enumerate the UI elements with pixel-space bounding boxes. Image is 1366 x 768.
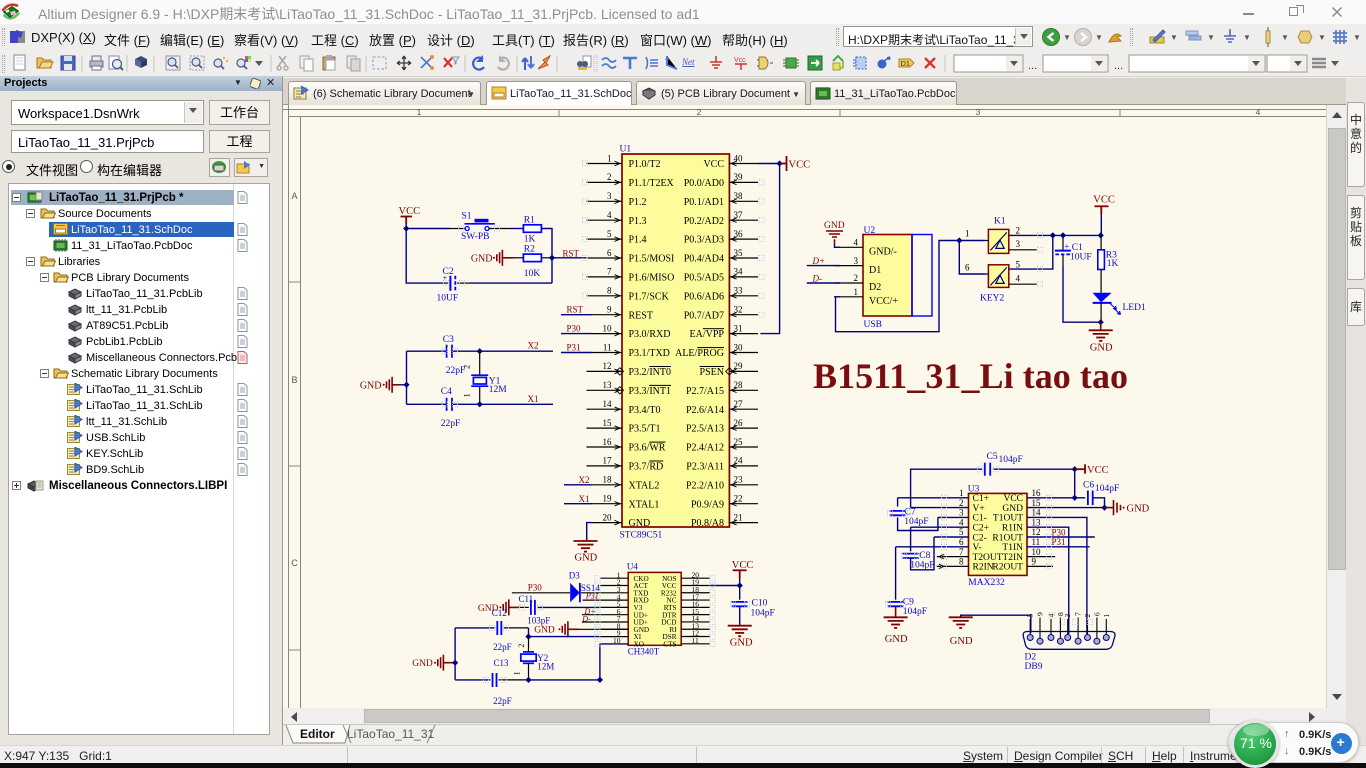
svg-text:28: 28 bbox=[734, 380, 744, 390]
svg-text:SW-PB: SW-PB bbox=[461, 232, 490, 242]
svg-text:24: 24 bbox=[734, 456, 744, 466]
wire K1 pin1 to KEY2 pin6 bbox=[959, 241, 985, 275]
pin 27 (U1 P2.6/A14) bbox=[729, 408, 758, 410]
svg-text:38: 38 bbox=[734, 191, 744, 201]
svg-text:26: 26 bbox=[734, 418, 744, 428]
svg-text:10UF: 10UF bbox=[1070, 252, 1092, 262]
svg-text:9: 9 bbox=[1032, 557, 1037, 567]
svg-text:18: 18 bbox=[603, 475, 613, 485]
svg-text:104pF: 104pF bbox=[903, 607, 927, 617]
resistor R3 bbox=[1100, 235, 1102, 249]
pin 38 (U1 P0.1/AD1) bbox=[729, 200, 758, 202]
pin 10 stub (U3 T2IN) bbox=[1027, 556, 1055, 558]
svg-text:1K: 1K bbox=[524, 235, 536, 245]
svg-text:GND: GND bbox=[360, 381, 382, 392]
key KEY2 bbox=[988, 265, 1008, 288]
junction (LED gnd node) bbox=[1098, 319, 1104, 325]
wire U3 pin14 T1OUT to DB9 pin2 bbox=[1027, 517, 1087, 634]
svg-text:P3.5/T1: P3.5/T1 bbox=[629, 424, 661, 435]
svg-text:2: 2 bbox=[1083, 614, 1092, 618]
wire D+ to U2 pin3 bbox=[807, 265, 840, 267]
wire X1 (crystal) bbox=[407, 403, 447, 405]
pin 28 (U1 P2.7/A15) bbox=[729, 389, 758, 391]
svg-text:GND: GND bbox=[629, 518, 651, 529]
svg-text:P1.4: P1.4 bbox=[629, 235, 647, 246]
pin 19 (U1 XTAL1) bbox=[592, 503, 622, 505]
wire VCC to S1 bbox=[406, 224, 450, 229]
svg-text:C1: C1 bbox=[1072, 243, 1083, 253]
svg-text:P0.9/A9: P0.9/A9 bbox=[691, 499, 724, 510]
svg-text:104pF: 104pF bbox=[1095, 484, 1119, 494]
svg-text:P0.3/AD3: P0.3/AD3 bbox=[684, 235, 724, 246]
pin 37 (U1 P0.2/AD2) bbox=[729, 219, 758, 221]
power GND (C6) bbox=[1105, 507, 1114, 509]
svg-text:10UF: 10UF bbox=[437, 293, 459, 303]
junction (Y2 top / XI) bbox=[525, 633, 531, 639]
wire U3 pin4 C2+ bbox=[911, 526, 969, 528]
svg-text:30: 30 bbox=[734, 342, 744, 352]
svg-text:15: 15 bbox=[603, 418, 613, 428]
svg-text:P1.3: P1.3 bbox=[629, 216, 647, 227]
pin 2 (U1 P1.1/T2EX) bbox=[587, 181, 623, 183]
svg-text:C5: C5 bbox=[987, 452, 998, 462]
svg-text:5: 5 bbox=[1026, 614, 1035, 618]
pin 6 (D2) bbox=[1096, 618, 1098, 639]
pin 1 (U2) bbox=[834, 296, 863, 298]
diode D3 SS14 bbox=[570, 583, 580, 602]
svg-text:2: 2 bbox=[517, 644, 526, 648]
svg-text:U3: U3 bbox=[968, 484, 980, 494]
svg-text:K1: K1 bbox=[994, 216, 1006, 226]
svg-text:2: 2 bbox=[1016, 226, 1021, 236]
pin 22 (U1 P0.9/A9) bbox=[729, 503, 758, 505]
svg-text:15: 15 bbox=[1032, 498, 1042, 508]
svg-text:22: 22 bbox=[734, 494, 743, 504]
svg-text:A: A bbox=[291, 191, 297, 201]
wire C2 bottom rail bbox=[406, 229, 441, 284]
wire U2 pin4 to GND bbox=[835, 244, 841, 248]
svg-text:C2-: C2- bbox=[973, 533, 987, 543]
svg-text:17: 17 bbox=[603, 456, 613, 466]
svg-text:7: 7 bbox=[607, 267, 612, 277]
pin 7 (U1 P1.6/MISO) bbox=[587, 276, 623, 278]
nav icons bbox=[1041, 27, 1061, 47]
svg-text:104pF: 104pF bbox=[904, 517, 928, 527]
svg-text:C7: C7 bbox=[905, 507, 916, 517]
svg-text:20: 20 bbox=[603, 512, 613, 522]
svg-text:PSEN: PSEN bbox=[700, 367, 724, 378]
svg-text:39: 39 bbox=[734, 172, 744, 182]
svg-text:1: 1 bbox=[513, 671, 522, 675]
svg-text:...: ... bbox=[1114, 60, 1123, 72]
pin 21 (U1 P0.8/A8) bbox=[729, 522, 758, 524]
pin 8 (D2) bbox=[1059, 618, 1061, 639]
ground GND (U1) bbox=[574, 541, 598, 552]
svg-text:104pF: 104pF bbox=[910, 560, 934, 570]
wire R3 to LED1 bbox=[1100, 270, 1102, 293]
tree bbox=[8, 183, 270, 735]
svg-text:VCC/+: VCC/+ bbox=[869, 296, 898, 307]
capacitor C6 104pF bbox=[1075, 497, 1086, 499]
power GND (C9) bbox=[884, 617, 908, 628]
capacitor C2 bbox=[449, 276, 451, 291]
svg-text:P0.7/AD7: P0.7/AD7 bbox=[684, 310, 724, 321]
svg-text:P2.5/A13: P2.5/A13 bbox=[686, 424, 724, 435]
wire U3 pin11 T1IN / P31 bbox=[1027, 546, 1090, 548]
svg-text:C13: C13 bbox=[494, 658, 510, 668]
svg-text:VCC: VCC bbox=[1087, 465, 1109, 476]
svg-text:3: 3 bbox=[607, 191, 612, 201]
junction (C1 node) bbox=[1060, 232, 1066, 238]
svg-text:KEY2: KEY2 bbox=[980, 293, 1005, 303]
svg-text:104pF: 104pF bbox=[751, 608, 775, 618]
svg-text:P2.4/A12: P2.4/A12 bbox=[686, 443, 724, 454]
svg-text:D+: D+ bbox=[812, 256, 826, 266]
svg-text:1: 1 bbox=[959, 488, 964, 498]
svg-text:DB9: DB9 bbox=[1025, 662, 1043, 672]
svg-text:4: 4 bbox=[607, 210, 612, 220]
pin 29 (U1 PSEN) bbox=[729, 370, 758, 372]
junction (Y2 gnd) bbox=[452, 660, 458, 666]
svg-text:RST: RST bbox=[563, 248, 580, 258]
svg-text:P3.2/INT0: P3.2/INT0 bbox=[629, 367, 672, 378]
wire U4 pin19 VCC bbox=[710, 585, 740, 587]
wire Y2 bottom to XO bbox=[529, 679, 600, 681]
junction (U1 VCC) bbox=[776, 160, 782, 166]
wire U3 pin12 R1OUT / P30 bbox=[1027, 536, 1095, 538]
svg-text:C1+: C1+ bbox=[973, 494, 989, 504]
svg-text:35: 35 bbox=[734, 248, 744, 258]
capacitor C4 bbox=[447, 398, 452, 411]
svg-text:2: 2 bbox=[854, 273, 859, 283]
svg-text:14: 14 bbox=[603, 399, 613, 409]
power GND (C10) bbox=[728, 626, 752, 637]
svg-text:P1.6/MISO: P1.6/MISO bbox=[629, 273, 675, 284]
svg-text:XTAL1: XTAL1 bbox=[629, 499, 660, 510]
wire P30 to diode D3 bbox=[512, 592, 570, 594]
svg-text:CTS: CTS bbox=[663, 640, 676, 648]
svg-text:MAX232: MAX232 bbox=[968, 578, 1005, 588]
svg-text:VCC: VCC bbox=[1093, 194, 1115, 205]
wire D- to U2 pin2 bbox=[807, 282, 840, 284]
junction (X2 node) bbox=[477, 348, 483, 354]
svg-text:6: 6 bbox=[959, 537, 964, 547]
LED LED1 bbox=[1093, 293, 1112, 303]
svg-text:GND: GND bbox=[471, 253, 493, 264]
junction (crystal gnd) bbox=[403, 382, 409, 388]
svg-text:12: 12 bbox=[1032, 527, 1041, 537]
svg-text:C6: C6 bbox=[1083, 480, 1094, 490]
svg-text:5: 5 bbox=[1016, 260, 1021, 270]
svg-text:R2OUT: R2OUT bbox=[992, 563, 1023, 573]
svg-text:C3: C3 bbox=[443, 335, 454, 345]
wire GND to crystal rail bbox=[399, 384, 407, 386]
pin 2 (U2) bbox=[834, 282, 863, 284]
wire P30 to U1 pin10 bbox=[561, 333, 592, 335]
svg-text:22pF: 22pF bbox=[441, 419, 461, 429]
svg-text:XO: XO bbox=[634, 640, 644, 648]
svg-text:C12: C12 bbox=[492, 608, 507, 618]
junction (XO corner) bbox=[597, 677, 603, 683]
pin 2 (D2) bbox=[1087, 619, 1089, 635]
junction (K1 pin1 node) bbox=[956, 237, 962, 243]
pin 17 (U1 P3.7/RD) bbox=[587, 465, 623, 467]
pin 3 (U2) bbox=[834, 265, 863, 267]
svg-text:R1OUT: R1OUT bbox=[992, 533, 1023, 543]
svg-text:37: 37 bbox=[734, 210, 744, 220]
wire GND to DB9 pin5 bbox=[961, 615, 1031, 633]
wire U3 pin6 V- bbox=[896, 546, 969, 548]
pin 18 (U1 XTAL2) bbox=[592, 484, 622, 486]
capacitor C13 22pF bbox=[455, 679, 490, 681]
svg-text:P1.0/T2: P1.0/T2 bbox=[629, 159, 661, 170]
svg-text:VCC: VCC bbox=[1003, 494, 1023, 504]
svg-text:10: 10 bbox=[603, 323, 613, 333]
wire KEY2 pin5 up to C1 node bbox=[1009, 235, 1053, 269]
wire XI to U4 pin9 bbox=[529, 636, 600, 638]
svg-text:XTAL2: XTAL2 bbox=[629, 480, 660, 491]
capacitor C1 10UF bbox=[1062, 235, 1064, 238]
pin 11 (U1 P3.1/TXD) bbox=[592, 352, 622, 354]
svg-text:6: 6 bbox=[607, 248, 612, 258]
wire VCC to U3 pin16 bbox=[1074, 469, 1076, 498]
svg-text:P31: P31 bbox=[585, 592, 599, 601]
svg-text:12M: 12M bbox=[489, 385, 508, 395]
wire X1 to U1 pin19 bbox=[564, 503, 592, 505]
svg-text:4: 4 bbox=[1256, 107, 1261, 117]
svg-text:P1.5/MOSI: P1.5/MOSI bbox=[629, 254, 675, 265]
svg-text:VCC: VCC bbox=[732, 560, 754, 571]
pin 9 (U1 REST) bbox=[592, 314, 622, 316]
svg-text:C8: C8 bbox=[919, 551, 930, 561]
junction (C1 top branch) bbox=[1050, 232, 1056, 238]
svg-text:EA/VPP: EA/VPP bbox=[690, 329, 725, 340]
svg-text:T1IN: T1IN bbox=[1002, 543, 1023, 553]
svg-text:P0.1/AD1: P0.1/AD1 bbox=[684, 197, 724, 208]
svg-text:U2: U2 bbox=[864, 226, 876, 236]
pin 4 (U1 P1.3) bbox=[587, 219, 623, 221]
svg-text:GND: GND bbox=[412, 659, 433, 669]
pin 15 (U1 P3.5/T1) bbox=[587, 427, 623, 429]
IC U4 CH340T bbox=[628, 572, 681, 645]
svg-text:P3.7/RD: P3.7/RD bbox=[629, 462, 664, 473]
svg-text:V-: V- bbox=[973, 543, 982, 553]
svg-text:11: 11 bbox=[1032, 537, 1041, 547]
svg-text:P1.7/SCK: P1.7/SCK bbox=[629, 291, 670, 302]
svg-text:12M: 12M bbox=[537, 662, 554, 672]
wire D+ to U4 pin6 bbox=[582, 614, 628, 616]
pin 8 (U1 P1.7/SCK) bbox=[587, 295, 623, 297]
svg-text:U1: U1 bbox=[620, 145, 632, 155]
svg-text:23: 23 bbox=[734, 475, 744, 485]
ground GND (LED) bbox=[1100, 322, 1102, 330]
wire R1 to RST node bbox=[541, 229, 552, 284]
svg-text:C2+: C2+ bbox=[973, 524, 989, 534]
svg-text:19: 19 bbox=[603, 494, 613, 504]
svg-text:32: 32 bbox=[734, 305, 743, 315]
wire GND to crystal rail bbox=[452, 662, 455, 664]
svg-text:P1.1/T2EX: P1.1/T2EX bbox=[629, 178, 675, 189]
svg-text:16: 16 bbox=[603, 437, 613, 447]
svg-text:104pF: 104pF bbox=[999, 455, 1023, 465]
pin 31 (U1 EA/VPP) bbox=[729, 333, 758, 335]
svg-text:22pF: 22pF bbox=[493, 642, 512, 652]
wire U3 pin2 V+ bbox=[911, 507, 969, 509]
svg-text:RST: RST bbox=[567, 305, 584, 315]
wire RST to U1 pin9 bbox=[561, 314, 592, 316]
wire U3 pin13 R1IN to DB9 pin3 bbox=[1027, 527, 1069, 634]
wire U1 pin40 to VCC bbox=[758, 163, 780, 165]
svg-text:13: 13 bbox=[1032, 517, 1042, 527]
svg-text:22pF: 22pF bbox=[493, 696, 512, 706]
svg-text:S1: S1 bbox=[462, 211, 472, 221]
wire U3 pin16 VCC bbox=[1027, 497, 1075, 499]
svg-text:P2.7/A15: P2.7/A15 bbox=[686, 386, 724, 397]
svg-text:6: 6 bbox=[965, 263, 970, 273]
svg-text:5: 5 bbox=[959, 527, 964, 537]
svg-text:3: 3 bbox=[854, 256, 859, 266]
svg-text:R1: R1 bbox=[524, 215, 535, 225]
svg-text:D3: D3 bbox=[569, 570, 580, 580]
svg-text:12: 12 bbox=[603, 361, 612, 371]
wire Y2 left rail bbox=[454, 628, 456, 680]
svg-text:P30: P30 bbox=[567, 324, 582, 334]
svg-text:P1.2: P1.2 bbox=[629, 197, 647, 208]
capacitor C11 103pF bbox=[519, 606, 529, 608]
svg-text:X1: X1 bbox=[528, 394, 539, 404]
pin 40 (U1 VCC) bbox=[729, 163, 758, 165]
switch S1 SW-PB bbox=[465, 223, 495, 225]
pin 5 (U1 P1.4) bbox=[587, 238, 623, 240]
pin 24 (U1 P2.3/A11) bbox=[729, 465, 758, 467]
crystal Y1 12M bbox=[479, 351, 481, 375]
wire C12 to Y2 node bbox=[528, 628, 530, 637]
pin 4 (D2) bbox=[1050, 619, 1052, 635]
svg-text:P3.0/RXD: P3.0/RXD bbox=[629, 329, 671, 340]
svg-text:D2: D2 bbox=[1025, 653, 1037, 663]
wire VCC to R3 node bbox=[1100, 214, 1102, 235]
wire C11 to U4 pin5 V3 bbox=[599, 606, 628, 608]
svg-text:X2: X2 bbox=[579, 475, 590, 485]
pin 14 (U1 P3.4/T0) bbox=[587, 408, 623, 410]
svg-text:GND: GND bbox=[885, 634, 908, 645]
svg-text:C4: C4 bbox=[441, 387, 452, 397]
resistor R2 bbox=[523, 254, 541, 262]
junction (U4 VCC node) bbox=[737, 582, 743, 588]
wire crystal left rail bbox=[406, 351, 408, 404]
pin 5 (D2) bbox=[1029, 619, 1031, 635]
capacitor C7 104pF bbox=[898, 497, 969, 499]
svg-text:3: 3 bbox=[976, 107, 981, 117]
pin 32 (U1 P0.7/AD7) bbox=[729, 314, 758, 316]
pin 12 (U1 P3.2/INT0) bbox=[587, 370, 623, 372]
svg-text:GND: GND bbox=[1090, 342, 1113, 353]
wire U3 pin5 C2- bbox=[934, 536, 969, 538]
wire S1 to R1 bbox=[489, 228, 510, 230]
svg-text:T2OUT: T2OUT bbox=[973, 553, 1003, 563]
capacitor C5 104pF bbox=[911, 469, 983, 507]
svg-text:2: 2 bbox=[607, 172, 612, 182]
wire XO to U4 pin10 bbox=[600, 644, 628, 680]
wire X2 (crystal) bbox=[407, 350, 447, 352]
svg-text:25: 25 bbox=[734, 437, 744, 447]
svg-text:GND: GND bbox=[730, 637, 753, 648]
capacitor C9 104pF bbox=[895, 547, 897, 600]
svg-text:1: 1 bbox=[965, 229, 970, 239]
svg-text:B: B bbox=[291, 375, 297, 385]
svg-text:P0.8/A8: P0.8/A8 bbox=[691, 518, 724, 529]
wire P31 to U1 pin11 bbox=[561, 352, 592, 354]
junction (VCC node) bbox=[403, 225, 409, 231]
svg-text:14: 14 bbox=[1032, 508, 1042, 518]
wire U1 VCC to pin31 EA/VPP bbox=[760, 164, 779, 334]
svg-text:GND: GND bbox=[950, 636, 973, 647]
wire K1 pin2 to VCC node bbox=[1009, 234, 1101, 236]
wire D- to U4 pin7 bbox=[582, 621, 628, 623]
svg-text:Vcc: Vcc bbox=[734, 57, 746, 64]
svg-text:LED1: LED1 bbox=[1123, 303, 1146, 313]
svg-text:U4: U4 bbox=[627, 562, 638, 572]
pin 33 (U1 P0.6/AD6) bbox=[729, 295, 758, 297]
svg-text:T2IN: T2IN bbox=[1002, 553, 1023, 563]
key K1 bbox=[988, 229, 1008, 253]
svg-text:T1OUT: T1OUT bbox=[993, 514, 1023, 524]
svg-text:1K: 1K bbox=[1107, 259, 1119, 269]
svg-text:VCC: VCC bbox=[789, 159, 811, 170]
svg-text:16: 16 bbox=[1032, 488, 1042, 498]
svg-text:40: 40 bbox=[734, 153, 744, 163]
svg-text:1: 1 bbox=[417, 107, 422, 117]
svg-text:D-: D- bbox=[812, 274, 823, 284]
svg-text:P30: P30 bbox=[528, 582, 543, 592]
svg-text:9: 9 bbox=[1036, 612, 1045, 616]
resistor R1 bbox=[523, 225, 541, 233]
wire LED1 to ground rail bbox=[1100, 303, 1102, 322]
vertical scrollbar bbox=[1326, 105, 1346, 708]
svg-text:4: 4 bbox=[959, 517, 964, 527]
svg-text:GND: GND bbox=[1002, 504, 1023, 514]
svg-text:P31: P31 bbox=[567, 343, 581, 353]
svg-text:D1: D1 bbox=[869, 265, 881, 276]
svg-text:P0.4/AD4: P0.4/AD4 bbox=[684, 254, 724, 265]
pin 35 (U1 P0.4/AD4) bbox=[729, 257, 758, 259]
pin 20 (U1 GND) bbox=[592, 522, 622, 524]
svg-text:P0.0/AD0: P0.0/AD0 bbox=[684, 178, 724, 189]
pin 3 (U1 P1.2) bbox=[587, 200, 623, 202]
svg-text:36: 36 bbox=[734, 229, 744, 239]
wire P31 to U4 pin4 RXD bbox=[583, 599, 629, 601]
pin 9 stub (U3 R2OUT) bbox=[1027, 565, 1053, 567]
svg-text:1: 1 bbox=[462, 393, 472, 397]
pin 1 (U1 P1.0/T2) bbox=[587, 163, 623, 165]
power VCC (U1) bbox=[780, 156, 787, 171]
pin 3 (D2) bbox=[1067, 619, 1069, 635]
svg-text:Net: Net bbox=[681, 57, 695, 67]
svg-text:GND: GND bbox=[824, 221, 845, 231]
IC U1 STC89C51 bbox=[622, 154, 729, 527]
svg-text:2: 2 bbox=[462, 365, 472, 369]
capacitor C3 bbox=[447, 345, 452, 358]
crystal Y2 12M bbox=[528, 637, 530, 652]
pin 10 (U1 P3.0/RXD) bbox=[592, 333, 622, 335]
svg-text:D1: D1 bbox=[901, 59, 911, 68]
pin 23 (U1 P2.2/A10) bbox=[729, 484, 758, 486]
junction (U3 gnd node) bbox=[1101, 504, 1107, 510]
svg-text:P3.1/TXD: P3.1/TXD bbox=[629, 348, 670, 359]
svg-text:103pF: 103pF bbox=[527, 616, 550, 626]
svg-text:P2.2/A10: P2.2/A10 bbox=[686, 480, 724, 491]
pin 39 (U1 P0.0/AD0) bbox=[729, 181, 758, 183]
